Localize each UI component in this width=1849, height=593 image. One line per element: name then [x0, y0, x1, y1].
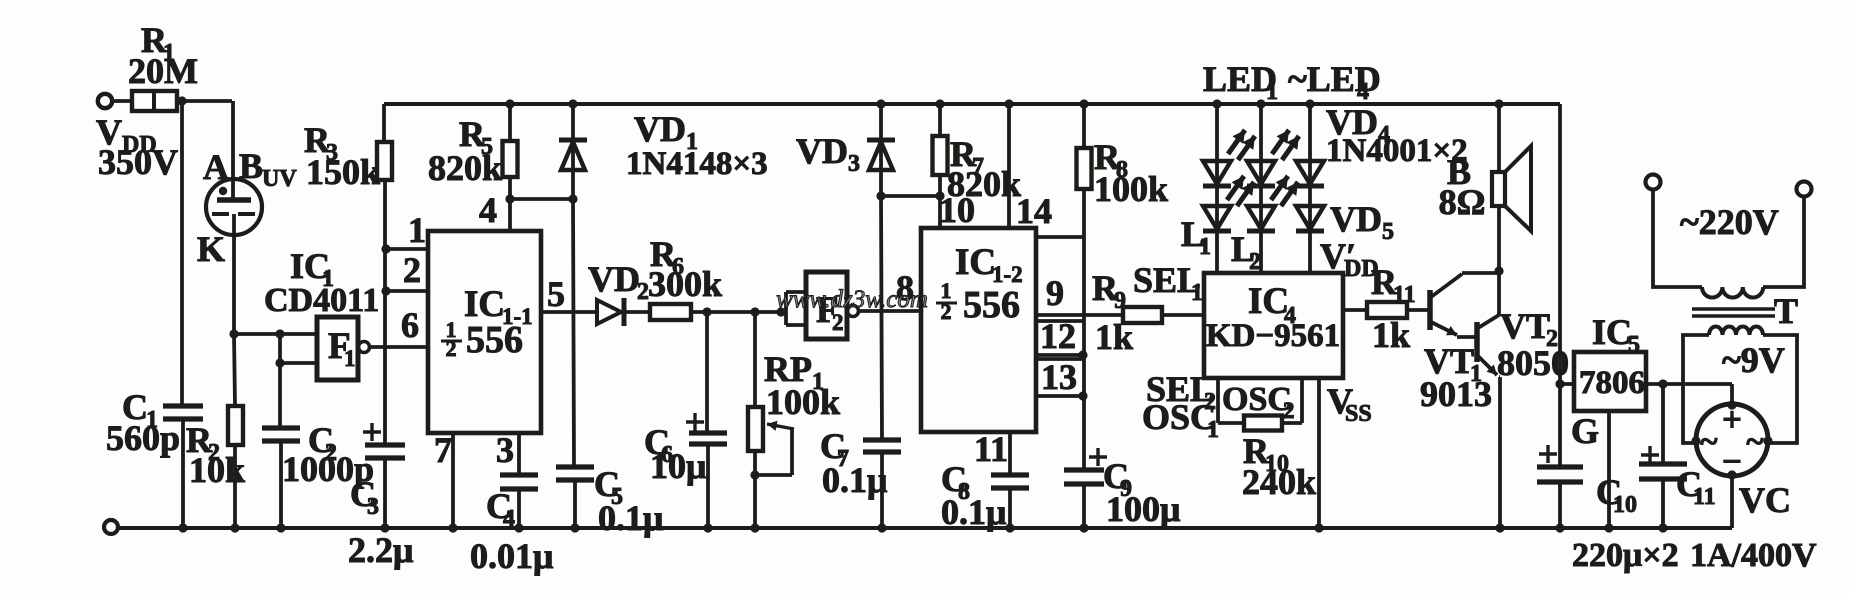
svg-text:G: G	[1571, 411, 1599, 451]
wire node to phototube anode	[231, 101, 235, 199]
node C10 ground junction	[1555, 523, 1564, 532]
wire OSC1 drop	[1218, 378, 1244, 423]
label 220u x2	[1572, 537, 1679, 574]
capacitor C11 polarity	[1641, 446, 1659, 464]
node R7 rail junction	[935, 99, 944, 108]
wire secondary left lead	[1683, 335, 1709, 443]
svg-text:1k: 1k	[1372, 315, 1410, 355]
svg-text:10: 10	[939, 190, 975, 230]
node IC5 input junction	[1555, 379, 1564, 388]
svg-text:4: 4	[503, 506, 515, 532]
transformer T primary	[1702, 287, 1763, 298]
svg-text:2: 2	[832, 310, 844, 335]
pin 6 label	[401, 305, 419, 345]
wire R8 down through pins to C9	[1082, 189, 1086, 470]
label Vdd 350V	[96, 112, 178, 182]
node collectors junction	[1494, 266, 1503, 275]
resistor R8	[1077, 137, 1169, 209]
wire to IC5	[1560, 382, 1574, 386]
transformer T secondary	[1709, 327, 1763, 336]
resistor R6	[648, 234, 722, 320]
wire VD3 cathode	[879, 104, 883, 139]
svg-text:2: 2	[941, 299, 952, 324]
svg-text:6: 6	[401, 305, 419, 345]
svg-text:B: B	[239, 146, 263, 186]
wire VD1 node down through C5	[573, 199, 574, 466]
wire C9 to ground rail	[1082, 484, 1086, 528]
resistor R10	[1242, 416, 1316, 503]
svg-text:100k: 100k	[1094, 169, 1168, 209]
phototube Buv	[197, 146, 297, 269]
svg-text:560p: 560p	[106, 418, 180, 458]
wire R7 top	[938, 104, 942, 136]
wire R3 to pins 1,2 and C3	[383, 180, 387, 444]
wire C1 to ground rail	[181, 419, 185, 528]
wire R7 bottom	[938, 175, 942, 196]
svg-text:8Ω: 8Ω	[1439, 182, 1486, 222]
transformer core	[1692, 291, 1798, 331]
capacitor C6	[644, 422, 727, 486]
node pin12 junction	[1078, 350, 1087, 359]
svg-text:5: 5	[547, 274, 565, 314]
resistor R1	[128, 20, 198, 111]
svg-text:2: 2	[1249, 249, 1261, 275]
nand gate F2	[806, 272, 859, 339]
svg-text:SS: SS	[1345, 401, 1372, 427]
node Vdd input terminal	[98, 94, 132, 108]
svg-text:VD: VD	[634, 109, 686, 149]
wire to gate F1 inputs	[234, 332, 280, 336]
wire C11 to ground rail	[1661, 479, 1665, 528]
nand gate F2 input loop	[786, 292, 806, 325]
svg-text:7806: 7806	[1579, 365, 1645, 401]
wire F1 input stubs	[280, 334, 317, 363]
pin 9 box top	[1036, 235, 1084, 239]
svg-text:1: 1	[1266, 79, 1278, 105]
svg-text:2: 2	[446, 336, 457, 361]
svg-text:220μ×2: 220μ×2	[1572, 537, 1679, 574]
wire R11 to VT1 base	[1407, 308, 1429, 312]
pin 3 wire	[496, 430, 519, 474]
wire R1 to node A	[177, 99, 232, 103]
capacitor C5	[556, 464, 663, 538]
wire pin14	[1009, 104, 1052, 231]
wire R9 to IC4 SEL1	[1162, 313, 1204, 317]
svg-text:0.1μ: 0.1μ	[822, 460, 887, 500]
wire C2 drop	[278, 363, 282, 427]
wire pin2 stub	[386, 250, 428, 291]
svg-text:IC: IC	[1248, 281, 1289, 322]
LED L1 chain	[1181, 99, 1255, 273]
svg-text:T: T	[1774, 291, 1798, 331]
svg-text:+: +	[1722, 400, 1742, 439]
svg-text:1: 1	[1199, 234, 1211, 260]
resistor R7	[933, 134, 1022, 204]
capacitor C6 polarity	[686, 413, 704, 431]
node VD3/C7 junction	[876, 191, 885, 200]
wire bridge minus to ground rail	[1730, 475, 1734, 528]
svg-text:CD4011: CD4011	[264, 282, 379, 319]
label IC1 CD4011	[264, 246, 379, 319]
svg-text:3: 3	[848, 151, 860, 177]
node RP1 junction	[750, 307, 759, 316]
svg-text:556: 556	[466, 319, 523, 361]
wire pin4: R5 top	[508, 104, 512, 141]
LED L2 chain	[1231, 99, 1299, 275]
wire C5 to ground rail	[573, 480, 577, 528]
svg-text:11: 11	[1393, 282, 1416, 308]
svg-text:300k: 300k	[648, 264, 722, 304]
node C4 ground junction	[514, 523, 523, 532]
wire primary right lead	[1763, 197, 1804, 287]
wire RP1 drop	[753, 312, 757, 407]
wire C6 to ground rail	[706, 444, 710, 528]
wire IC4 out to R11	[1343, 308, 1367, 312]
label LED1~LED4	[1203, 59, 1381, 105]
wire C8 to ground rail	[1008, 488, 1012, 528]
transistor VT2	[1477, 306, 1569, 383]
svg-text:www.dz3w.com: www.dz3w.com	[776, 286, 928, 313]
node pin7 ground junction	[448, 523, 457, 532]
svg-text:820k: 820k	[428, 148, 502, 188]
capacitor C3	[348, 445, 413, 570]
svg-text:A: A	[203, 147, 229, 187]
wire VD3 anode to node	[879, 140, 883, 196]
svg-text:9013: 9013	[1420, 374, 1492, 414]
wire VT2 emitter to ground	[1499, 377, 1500, 528]
wire pin1 stub	[386, 210, 428, 250]
node pin14 rail junction	[1004, 99, 1013, 108]
svg-text:10μ: 10μ	[650, 446, 706, 486]
svg-text:IC: IC	[955, 242, 996, 283]
Vdd top rail bus	[384, 102, 1560, 106]
svg-text:14: 14	[1016, 191, 1052, 231]
resistor R9	[1092, 268, 1162, 357]
label OSC2	[1222, 381, 1295, 423]
node C6 ground junction	[703, 523, 712, 532]
svg-text:1N4148×3: 1N4148×3	[626, 146, 768, 182]
wire R5 bottom to node	[508, 177, 512, 199]
diode VD3	[796, 131, 895, 177]
node C3 ground junction	[380, 523, 389, 532]
node RP1 bottom junction	[750, 470, 759, 479]
capacitor C8	[941, 459, 1029, 532]
svg-text:2: 2	[1283, 398, 1295, 423]
node R5 rail junction	[505, 99, 514, 108]
svg-text:~: ~	[1746, 424, 1763, 460]
svg-text:5: 5	[1628, 332, 1640, 358]
svg-text:11: 11	[1693, 484, 1716, 510]
node C6 junction	[702, 307, 711, 316]
node VD1 rail junction	[568, 99, 577, 108]
svg-text:0.1μ: 0.1μ	[941, 492, 1006, 532]
svg-text:~9V: ~9V	[1722, 340, 1785, 380]
svg-text:100μ: 100μ	[1106, 489, 1180, 529]
capacitor C10 polarity	[1539, 445, 1557, 463]
node pin7/C1/R2/C2/C3 rail junctions	[178, 523, 285, 532]
pin 9 wire	[1036, 273, 1123, 315]
svg-text:~220V: ~220V	[1680, 202, 1779, 242]
wire C10 drop	[1558, 384, 1562, 467]
svg-text:~: ~	[1700, 424, 1717, 460]
svg-text:OSC: OSC	[1222, 381, 1292, 418]
svg-text:VD: VD	[588, 259, 640, 299]
pin 7 wire	[434, 430, 453, 528]
svg-text:10: 10	[1613, 492, 1637, 518]
wire IC5 ground pin G	[1571, 411, 1609, 528]
node C11 junction	[1658, 379, 1667, 388]
svg-text:5: 5	[1382, 219, 1394, 245]
svg-text:3: 3	[496, 430, 514, 470]
watermark	[776, 286, 928, 313]
diodes VD4 VD5 chain	[1296, 99, 1468, 282]
svg-text:11: 11	[974, 429, 1008, 469]
wire VT1 emitter to VT2 base	[1457, 335, 1476, 339]
wire VD2 to R6	[624, 310, 650, 314]
svg-text:2: 2	[403, 250, 421, 290]
node F2 input junction	[776, 307, 785, 316]
svg-text:9: 9	[1046, 273, 1064, 313]
wire node to VD1 anode	[510, 197, 573, 201]
node pin2 junction	[381, 286, 390, 295]
svg-text:VD: VD	[1330, 199, 1382, 239]
svg-text:12: 12	[1040, 316, 1076, 356]
capacitor C2	[262, 420, 374, 489]
wire VD3 node to R7	[881, 194, 940, 198]
svg-text:3: 3	[367, 494, 379, 520]
node R8 rail junction	[1079, 99, 1088, 108]
resistor R2	[186, 406, 245, 490]
svg-text:9: 9	[1114, 288, 1126, 314]
capacitor C7	[820, 426, 901, 500]
wire rail to speaker	[1497, 104, 1501, 172]
wire VD1 cathode	[571, 104, 575, 139]
svg-text:VT: VT	[1500, 306, 1550, 346]
node junction K/R2/F1-input	[229, 329, 238, 338]
svg-text:0.1μ: 0.1μ	[598, 498, 663, 538]
node junction F1 input b	[275, 358, 284, 367]
svg-text:240k: 240k	[1242, 462, 1316, 502]
pin 5 wire	[541, 274, 596, 314]
nand gate F1	[317, 317, 370, 380]
node C8 ground junction	[1005, 523, 1014, 532]
wire pin10 drop	[939, 190, 975, 230]
wire rail corner down to R3	[382, 104, 386, 142]
svg-text:4: 4	[479, 190, 497, 230]
svg-text:20M: 20M	[128, 51, 198, 91]
wire C2 to ground rail	[279, 441, 283, 528]
node pin4 junction	[505, 194, 514, 203]
wire phototube cathode down	[234, 214, 235, 406]
capacitor C9	[1064, 456, 1180, 529]
op-timer IC1-1 (1/2 556)	[428, 231, 541, 433]
svg-text:2.2μ: 2.2μ	[348, 530, 413, 570]
wire OSC2 return	[1282, 378, 1302, 423]
label SEL1	[1133, 260, 1203, 306]
label ~220V	[1680, 202, 1779, 242]
wire F1 input b drop	[278, 334, 282, 363]
resistor R5	[428, 114, 518, 188]
svg-text:1: 1	[408, 210, 426, 250]
diode VD1	[559, 109, 768, 182]
potentiometer RP1 wiper	[755, 421, 794, 475]
svg-text:VD: VD	[796, 131, 848, 171]
svg-text:13: 13	[1041, 357, 1077, 397]
capacitor C11	[1639, 464, 1716, 510]
node Vss ground junction	[1314, 523, 1323, 532]
transistor VT1	[1420, 274, 1492, 414]
svg-text:UV: UV	[262, 166, 297, 192]
wire IC5 output	[1646, 382, 1732, 386]
wire C6 drop	[705, 312, 709, 432]
node pin13 junction	[1078, 391, 1087, 400]
wire VD1 anode to node	[571, 140, 575, 199]
ground rail (bottom bus)	[118, 526, 1732, 530]
ic IC4 KD-9561	[1204, 273, 1343, 378]
svg-text:K: K	[197, 229, 225, 269]
wire C11 drop	[1661, 384, 1665, 464]
label OSC1	[1142, 397, 1219, 443]
label ~9V	[1722, 340, 1785, 380]
node VD3 rail junction	[876, 99, 885, 108]
wire F1 output to pin6	[370, 345, 428, 349]
capacitor C9 polarity	[1089, 448, 1107, 466]
wire R6 to gate F2	[691, 310, 786, 314]
node C9 ground junction	[1079, 523, 1088, 532]
svg-text:KD−9561: KD−9561	[1206, 318, 1340, 354]
wire R2 to ground rail	[233, 445, 237, 528]
wire R8 top	[1082, 104, 1086, 148]
node R7/pin10 junction	[935, 191, 944, 200]
wire C7 to ground rail	[880, 452, 884, 528]
svg-text:1: 1	[344, 346, 356, 371]
pin 12 box	[1037, 316, 1083, 356]
wire VT1 collector	[1462, 271, 1499, 275]
terminal AC left	[1646, 175, 1661, 190]
wire C4 to ground rail	[517, 489, 521, 528]
svg-text:556: 556	[963, 284, 1020, 326]
regulator IC5 7806	[1574, 312, 1646, 411]
wire RP1 to ground rail	[753, 451, 757, 528]
svg-text:IC: IC	[1592, 312, 1632, 352]
node speaker rail junction	[1494, 99, 1503, 108]
svg-text:0.01μ: 0.01μ	[470, 536, 553, 576]
bridge rectifier VC	[1691, 400, 1791, 520]
label 1A/400V	[1690, 537, 1817, 574]
svg-text:350V: 350V	[98, 142, 178, 182]
wire to bridge plus	[1730, 384, 1734, 405]
terminal AC right	[1797, 182, 1812, 197]
capacitor C4	[470, 475, 553, 576]
svg-text:150k: 150k	[306, 152, 380, 192]
wire pin4 drop	[479, 190, 510, 231]
pin 11 wire	[974, 429, 1010, 474]
node C5 ground junction	[570, 523, 579, 532]
pin 13 box	[1037, 357, 1083, 397]
wire F2 output to pin8	[859, 268, 921, 311]
wire Vss to ground	[1319, 378, 1372, 528]
node junction R1/C1/Buv	[177, 96, 186, 105]
node RP1 ground junction	[750, 523, 759, 532]
potentiometer RP1	[748, 349, 840, 451]
node G ground junction	[1604, 523, 1613, 532]
node pin1 junction	[381, 244, 390, 253]
capacitor C3 polarity	[363, 423, 381, 441]
label SEL2	[1146, 369, 1216, 415]
ground terminal bottom-left	[104, 520, 118, 534]
node junction F1 input a	[275, 329, 284, 338]
wire secondary right lead	[1763, 335, 1797, 443]
op-timer IC1-2 (1/2 556)	[921, 228, 1036, 432]
node VT2 emitter ground junction	[1495, 523, 1504, 532]
node VD1/R5 junction	[568, 194, 577, 203]
resistor R3	[304, 120, 392, 192]
wire rail corner down to IC5 input	[1558, 104, 1562, 384]
svg-text:VC: VC	[1739, 480, 1791, 520]
svg-text:7: 7	[434, 430, 452, 470]
capacitor C10	[1537, 467, 1637, 518]
diode VD2	[588, 259, 649, 326]
wire node down to C1	[180, 101, 184, 404]
speaker B	[1439, 146, 1531, 231]
wire C10 to ground rail	[1558, 482, 1562, 528]
svg-text:OSC: OSC	[1142, 397, 1216, 437]
capacitor C1	[106, 387, 203, 458]
wire VD3 node down through C7	[881, 196, 882, 439]
wire primary left lead	[1653, 190, 1702, 287]
resistor R11	[1367, 262, 1416, 355]
svg-text:1k: 1k	[1095, 317, 1133, 357]
wire C3 to ground rail	[383, 458, 387, 528]
node C11 ground junction	[1658, 523, 1667, 532]
svg-text:1A/400V: 1A/400V	[1690, 537, 1817, 574]
node C7 ground junction	[877, 523, 886, 532]
wire collectors to speaker	[1497, 206, 1501, 316]
svg-text:100k: 100k	[766, 382, 840, 422]
svg-text:1: 1	[1191, 280, 1203, 306]
